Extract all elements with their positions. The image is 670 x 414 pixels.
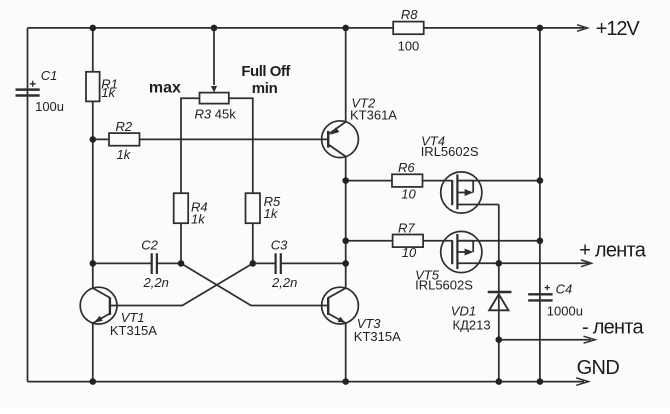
svg-text:C4: C4 bbox=[556, 281, 573, 296]
svg-text:min: min bbox=[252, 80, 278, 97]
svg-text:КД213: КД213 bbox=[453, 317, 491, 332]
svg-text:1000u: 1000u bbox=[547, 304, 583, 319]
svg-text:KT315A: KT315A bbox=[110, 323, 157, 338]
svg-text:2,2n: 2,2n bbox=[143, 275, 169, 290]
svg-text:1k: 1k bbox=[191, 211, 206, 226]
svg-text:R8: R8 bbox=[401, 7, 418, 22]
svg-text:VD1: VD1 bbox=[451, 303, 476, 318]
svg-text:10: 10 bbox=[402, 245, 417, 260]
svg-text:1k: 1k bbox=[101, 85, 116, 100]
svg-text:+ лента: + лента bbox=[579, 239, 647, 261]
svg-text:100: 100 bbox=[398, 38, 420, 53]
svg-text:- лента: - лента bbox=[582, 317, 644, 339]
svg-text:1k: 1k bbox=[117, 147, 132, 162]
svg-text:IRL5602S: IRL5602S bbox=[415, 277, 473, 292]
svg-text:max: max bbox=[149, 80, 181, 97]
svg-text:100u: 100u bbox=[35, 99, 64, 114]
svg-text:R7: R7 bbox=[398, 220, 415, 235]
svg-text:R6: R6 bbox=[398, 160, 415, 175]
svg-text:KT361A: KT361A bbox=[350, 107, 397, 122]
svg-text:C3: C3 bbox=[271, 238, 288, 253]
svg-text:+12V: +12V bbox=[596, 18, 641, 40]
svg-text:R2: R2 bbox=[116, 119, 133, 134]
svg-text:C2: C2 bbox=[141, 238, 158, 253]
svg-text:1k: 1k bbox=[264, 206, 279, 221]
svg-text:2,2n: 2,2n bbox=[271, 275, 297, 290]
svg-text:IRL5602S: IRL5602S bbox=[421, 144, 479, 159]
svg-text:C1: C1 bbox=[41, 68, 58, 83]
svg-text:GND: GND bbox=[577, 357, 620, 379]
svg-text:R3 45k: R3 45k bbox=[195, 107, 237, 122]
svg-text:Full Off: Full Off bbox=[241, 63, 291, 80]
svg-text:10: 10 bbox=[401, 186, 416, 201]
svg-text:KT315A: KT315A bbox=[354, 329, 401, 344]
